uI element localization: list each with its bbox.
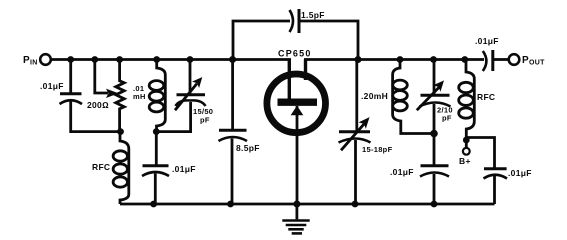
svg-text:POUT: POUT — [522, 55, 545, 67]
svg-text:PIN: PIN — [23, 55, 38, 67]
svg-text:B+: B+ — [459, 156, 471, 166]
svg-text:pF: pF — [200, 116, 210, 125]
svg-text:.01μF: .01μF — [40, 81, 64, 91]
svg-text:.01μF: .01μF — [172, 164, 196, 174]
svg-text:.01μF: .01μF — [475, 36, 499, 46]
svg-text:pF: pF — [442, 114, 452, 123]
svg-text:CP650: CP650 — [278, 49, 312, 59]
svg-text:1.5pF: 1.5pF — [301, 10, 325, 20]
svg-text:8.5pF: 8.5pF — [236, 143, 260, 153]
svg-text:.01μF: .01μF — [508, 168, 532, 178]
svg-text:15-18pF: 15-18pF — [362, 145, 393, 154]
svg-text:RFC: RFC — [92, 162, 110, 172]
svg-text:200Ω: 200Ω — [87, 100, 109, 110]
svg-text:RFC: RFC — [477, 92, 495, 102]
svg-text:mH: mH — [133, 92, 146, 101]
svg-text:.01μF: .01μF — [390, 167, 414, 177]
svg-text:.20mH: .20mH — [361, 91, 388, 101]
